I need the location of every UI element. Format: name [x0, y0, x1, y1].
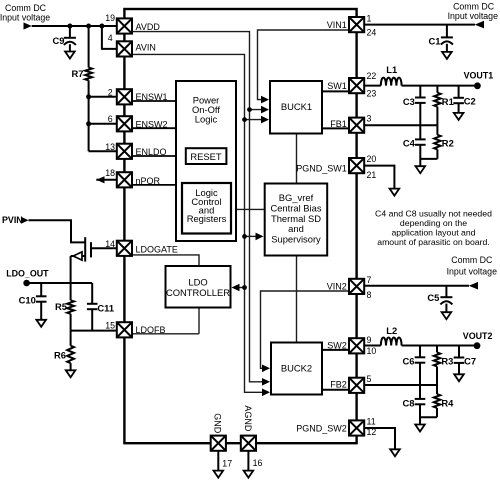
pin ENSW1 (2) [117, 89, 132, 104]
svg-text:AVIN: AVIN [136, 42, 156, 52]
wire PGND_SW1 to ground [364, 166, 394, 189]
wire LDO CONTROLLER to LDOFB net [198, 308, 200, 334]
wire VIN1 to BUCK1 [258, 30, 350, 100]
block LDO CONTROLLER [166, 266, 231, 308]
svg-text:7: 7 [367, 275, 372, 285]
svg-text:Input voltage: Input voltage [447, 267, 497, 277]
arrowhead into LDO CONTROLLER [232, 284, 240, 292]
arrowhead VIN2 into BUCK2 [262, 365, 270, 373]
svg-text:C10: C10 [19, 294, 36, 305]
wire VIN2 rail [364, 285, 469, 287]
wire L1 to VOUT1 [402, 85, 475, 87]
pin LDOFB (15) [117, 322, 132, 337]
svg-text:C5: C5 [427, 292, 439, 303]
svg-text:BG_vref: BG_vref [279, 192, 314, 203]
svg-text:2: 2 [108, 88, 113, 98]
capacitor C11 [91, 283, 93, 304]
svg-text:16: 16 [253, 458, 263, 468]
svg-text:15: 15 [105, 321, 115, 331]
svg-text:VOUT1: VOUT1 [464, 71, 494, 81]
svg-text:22: 22 [367, 71, 377, 81]
svg-text:Comm DC: Comm DC [451, 255, 493, 265]
svg-text:Input voltage: Input voltage [448, 11, 498, 21]
wire AVIN net (right then down to BUCK2) [132, 54, 267, 392]
svg-text:14: 14 [105, 239, 115, 249]
resistor R1 [436, 86, 438, 93]
R7 zigzag [85, 68, 92, 81]
svg-text:4: 4 [108, 33, 113, 43]
svg-text:11: 11 [367, 416, 376, 426]
pin PGND_SW2 [349, 420, 364, 435]
svg-text:9: 9 [367, 335, 372, 345]
wire BUCK1 SW1 [322, 90, 349, 92]
capacitor C7 [458, 346, 460, 358]
block Power On-Off Logic [176, 81, 236, 241]
junction dot AVIN branch [99, 24, 104, 29]
svg-text:3: 3 [367, 113, 372, 123]
capacitor C6 [419, 346, 421, 358]
wire SW1 to L1 [364, 85, 381, 87]
svg-text:L2: L2 [386, 325, 397, 336]
wire R4 bottom to C8 [420, 416, 437, 418]
svg-text:Input voltage: Input voltage [0, 13, 50, 23]
wire ENSW1 to logic [132, 100, 176, 102]
svg-text:R6: R6 [54, 350, 66, 361]
ground below C4/R2 [416, 166, 426, 173]
wire PVIN to transistor [29, 220, 86, 242]
wire AVIN branch to BUCK1 [245, 119, 267, 121]
wire LDOFB to LDO controller net [132, 333, 199, 335]
svg-text:FB2: FB2 [330, 380, 347, 390]
svg-text:C4: C4 [403, 138, 416, 149]
resistor R6 [70, 331, 72, 346]
svg-text:LDOGATE: LDOGATE [136, 245, 178, 255]
arrowhead AVIN into BUCK1 [261, 116, 269, 124]
block BUCK2 [271, 343, 322, 395]
svg-text:CONTROLLER: CONTROLLER [166, 287, 230, 298]
svg-text:BUCK1: BUCK1 [281, 101, 312, 112]
svg-text:R7: R7 [72, 68, 84, 79]
wire to ENSW2 [89, 123, 118, 125]
block BUCK1 [270, 81, 322, 134]
svg-text:C8: C8 [403, 397, 415, 408]
inductor L2 [381, 337, 402, 345]
wire Q1 drain down to LDO_OUT rail [70, 256, 72, 283]
IC boundary [124, 9, 356, 443]
svg-text:R2: R2 [442, 138, 454, 149]
block RESET [186, 148, 227, 164]
svg-text:LDO_OUT: LDO_OUT [6, 269, 49, 279]
svg-text:R1: R1 [442, 96, 454, 107]
pin ENLDO (13) [117, 144, 132, 159]
transistor Q1 PMOS pass device [84, 237, 86, 261]
capacitor C5 [445, 286, 447, 297]
svg-text:depending on the: depending on the [400, 218, 467, 228]
capacitor C1 [446, 25, 448, 37]
resistor R5 [70, 283, 72, 300]
svg-text:C11: C11 [97, 302, 114, 313]
capacitor C8 [419, 385, 421, 399]
svg-text:GND: GND [213, 413, 223, 434]
svg-text:19: 19 [105, 13, 115, 23]
wire nPOR from logic [132, 184, 176, 186]
svg-text:RESET: RESET [190, 151, 222, 162]
svg-text:C1: C1 [429, 36, 441, 47]
wire AVIN branch to LDO CONTROLLER [234, 287, 245, 289]
Q1 drain lead with arrow [71, 255, 86, 257]
svg-text:C9: C9 [53, 35, 65, 46]
pin GND (17) [211, 436, 226, 451]
wire BUCK2 FB2 [322, 389, 349, 391]
svg-text:PGND_SW1: PGND_SW1 [296, 164, 347, 174]
wire VIN2 to BUCK2 [261, 291, 350, 368]
svg-text:Central Bias: Central Bias [270, 202, 321, 213]
svg-text:C6: C6 [403, 356, 415, 367]
wire Q1 gate to LDOGATE [91, 247, 118, 249]
pin SW2 [349, 338, 364, 353]
resistor R4 [436, 385, 438, 394]
svg-text:nPOR: nPOR [136, 176, 161, 186]
wire R2 bottom to C4 [420, 158, 437, 160]
block Logic Control and Registers [182, 183, 231, 234]
wire LDOFB node [71, 330, 118, 332]
wire AVDD net (right then down to BUCK2) [132, 32, 267, 382]
wire BG_vref to BUCK2 [296, 256, 298, 343]
resistor R7 [88, 26, 90, 68]
svg-text:Logic: Logic [195, 113, 218, 124]
arrowhead into BG_vref [256, 233, 264, 241]
arrowhead AVIN into BUCK2 [262, 389, 270, 397]
svg-text:VIN2: VIN2 [327, 281, 347, 291]
wire to ENLDO [89, 150, 118, 152]
svg-text:10: 10 [367, 346, 377, 356]
svg-text:17: 17 [222, 459, 232, 469]
svg-text:amount of parasitic on board.: amount of parasitic on board. [377, 237, 490, 247]
inductor L1 [381, 78, 402, 86]
svg-text:PVIN: PVIN [2, 215, 23, 225]
svg-text:VOUT2: VOUT2 [463, 331, 493, 341]
svg-text:23: 23 [367, 88, 377, 98]
junction dot AVIN/BUCK1 [242, 117, 247, 122]
junction dot AVIN/LDO [242, 285, 247, 290]
ground PGND_SW2 [390, 449, 400, 456]
svg-text:6: 6 [108, 114, 113, 124]
pin ENSW2 (6) [117, 116, 132, 131]
svg-text:ENSW2: ENSW2 [136, 120, 168, 130]
svg-text:C4 and C8 usually not needed: C4 and C8 usually not needed [375, 209, 492, 219]
ground below C8/R4 [415, 425, 425, 432]
svg-text:C3: C3 [403, 96, 415, 107]
input arrow top-left [24, 22, 32, 29]
ground PGND_SW1 [390, 189, 400, 196]
svg-text:5: 5 [367, 374, 372, 384]
svg-text:and: and [288, 223, 304, 234]
wire BUCK2 SW2 [322, 349, 349, 351]
wire AVIN branch down [102, 26, 117, 49]
svg-text:8: 8 [367, 290, 372, 300]
pin AVIN (4) [117, 41, 132, 56]
node VOUT1 [474, 82, 481, 89]
junction dot R7 [86, 24, 91, 29]
capacitor C9 [69, 26, 71, 37]
pin LDOGATE (14) [117, 241, 132, 256]
wire ENSW2 to logic [132, 127, 176, 129]
wire to ENSW1 [89, 96, 118, 98]
junction dot AVDD/BUCK1 [247, 107, 252, 112]
capacitor C2 [458, 86, 460, 98]
svg-text:LDOFB: LDOFB [136, 325, 166, 335]
wire VIN1 rail [364, 24, 475, 26]
wire ENLDO to logic [132, 155, 176, 157]
pin PGND_SW1 [349, 158, 364, 173]
svg-text:Thermal SD: Thermal SD [271, 213, 321, 224]
pin FB2 [349, 378, 364, 393]
svg-text:SW2: SW2 [327, 340, 347, 350]
pin VIN1 [349, 17, 364, 32]
wire LDO_OUT rail [27, 282, 93, 284]
capacitor C3 [419, 86, 421, 98]
svg-text:ENSW1: ENSW1 [136, 92, 168, 102]
svg-text:18: 18 [105, 168, 115, 178]
wire BUCK1 to BG_vref [296, 134, 298, 184]
svg-text:21: 21 [367, 170, 377, 180]
svg-text:C2: C2 [464, 96, 476, 107]
resistor R2 [436, 125, 438, 135]
wire BUCK1 FB1 [322, 127, 349, 129]
svg-text:Registers: Registers [187, 213, 227, 224]
svg-text:R4: R4 [441, 397, 454, 408]
pin FB1 [349, 118, 364, 133]
wire L2 to VOUT2 [402, 345, 474, 347]
svg-text:Supervisory: Supervisory [271, 234, 321, 245]
svg-text:R5: R5 [55, 301, 67, 312]
wire FB2 divider [364, 384, 437, 386]
svg-text:BUCK2: BUCK2 [281, 363, 312, 374]
node VOUT2 [474, 342, 481, 349]
svg-text:Comm DC: Comm DC [453, 2, 495, 12]
arrowhead VIN1 into BUCK1 [261, 96, 269, 104]
junction dot AVIN/BG [242, 234, 247, 239]
wire LDOGATE to LDO CONTROLLER [132, 255, 199, 266]
resistor R3 [436, 346, 438, 353]
input arrow VIN1 [475, 21, 484, 29]
nPOR output arrow [96, 176, 104, 183]
svg-text:C7: C7 [464, 356, 476, 367]
svg-text:VIN1: VIN1 [327, 20, 347, 30]
capacitor C4 [419, 125, 421, 139]
pin AVDD (19) [117, 18, 132, 33]
wire FB1 divider [364, 124, 437, 126]
svg-text:application layout and: application layout and [391, 228, 475, 238]
junction dot ENSW2 [86, 121, 91, 126]
svg-text:LDO: LDO [188, 276, 207, 287]
PVIN arrow [21, 217, 29, 224]
pin VIN2 [349, 279, 364, 294]
arrowhead AVDD into BUCK2 [262, 378, 270, 386]
pin AGND (16) [241, 436, 256, 451]
pin SW1 [349, 78, 364, 93]
wire AVDD branch to BUCK1 [250, 109, 267, 111]
svg-text:AGND: AGND [243, 405, 253, 432]
capacitor C10 [40, 283, 42, 296]
wire input rail to AVDD [32, 25, 117, 27]
wire SW2 to L2 [364, 345, 381, 347]
svg-text:R3: R3 [441, 356, 453, 367]
svg-text:FB1: FB1 [330, 119, 347, 129]
svg-text:13: 13 [105, 142, 115, 152]
pin nPOR (18) [117, 172, 132, 187]
svg-text:Comm DC: Comm DC [5, 3, 47, 13]
arrowhead AVDD into BUCK1 [261, 106, 269, 114]
wire PGND_SW2 to ground [364, 428, 395, 449]
svg-text:1: 1 [367, 13, 372, 23]
wire logic to BG_vref [236, 208, 265, 210]
svg-text:24: 24 [367, 28, 377, 38]
block BG_vref Central Bias Thermal SD and Supervisory [265, 184, 328, 256]
svg-text:L1: L1 [386, 64, 397, 75]
svg-text:SW1: SW1 [327, 81, 347, 91]
junction dot ENSW1 [86, 94, 91, 99]
junction dot C9 [67, 24, 72, 29]
input arrow VIN2 [469, 282, 478, 290]
svg-text:AVDD: AVDD [136, 22, 161, 32]
wire AVIN branch to BG_vref [245, 235, 261, 237]
svg-text:20: 20 [367, 154, 377, 164]
svg-text:PGND_SW2: PGND_SW2 [296, 423, 347, 433]
svg-text:ENLDO: ENLDO [136, 147, 167, 157]
